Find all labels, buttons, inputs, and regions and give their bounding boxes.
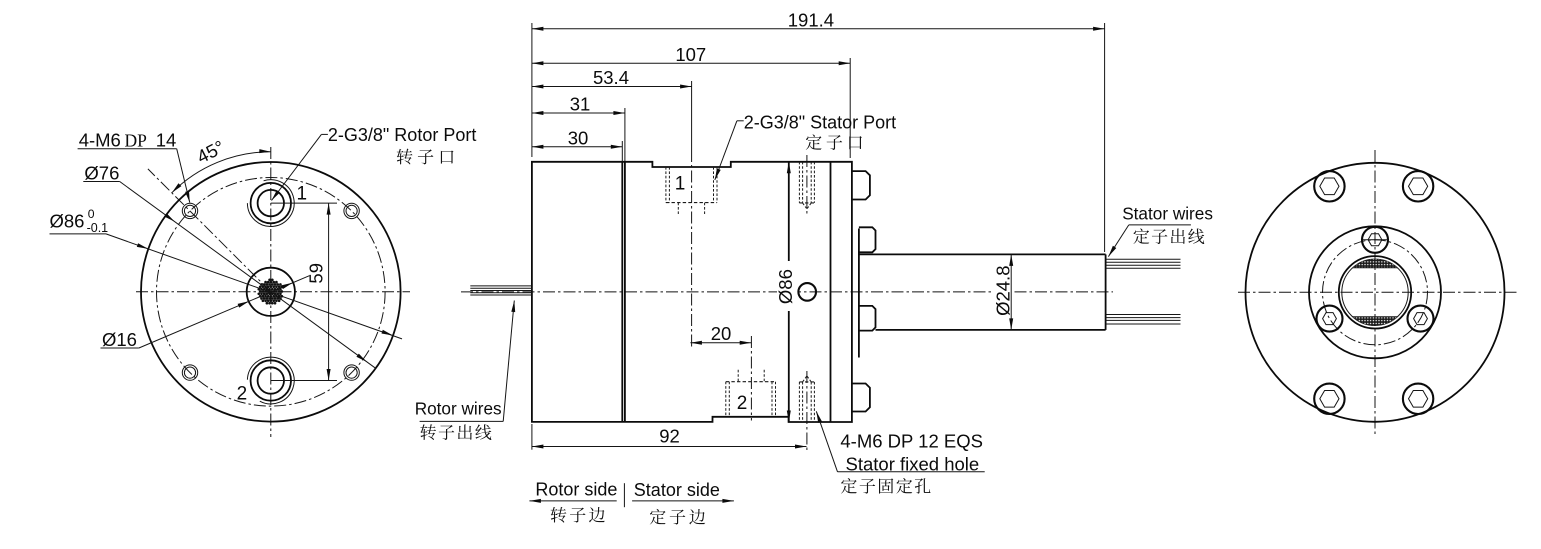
boss face line <box>858 229 860 358</box>
divider line <box>623 483 625 507</box>
svg-text:Stator fixed hole: Stator fixed hole <box>846 453 980 474</box>
dim 45deg arc <box>172 152 271 193</box>
middle centerline <box>461 291 1113 293</box>
hex bolt lower-left <box>1317 306 1343 332</box>
port 1 centerline <box>691 150 693 347</box>
label CJK dingzigudingkong <box>841 478 857 494</box>
stator flange left edge + O86 dim line <box>788 162 790 422</box>
socket head screw top-right <box>1403 171 1433 201</box>
dim 20 <box>690 342 751 344</box>
port 2 centerline <box>750 336 752 421</box>
svg-text:4-M6 DP 12 EQS: 4-M6 DP 12 EQS <box>840 431 983 452</box>
svg-text:2: 2 <box>737 393 748 414</box>
stator wires top <box>1106 258 1181 260</box>
socket head screw bottom-right <box>1403 384 1433 414</box>
svg-text:2-G3/8" Rotor Port: 2-G3/8" Rotor Port <box>328 125 476 145</box>
leader O86 through circle <box>106 234 402 339</box>
hex bolt lower-right <box>1408 306 1434 332</box>
svg-text:Ø86: Ø86 <box>775 269 796 304</box>
leader O76 through center <box>120 182 375 368</box>
leader O16 through center hole <box>139 276 310 348</box>
label CJK zhuanzibian <box>551 507 567 523</box>
stator port 2 hidden thread <box>725 382 727 417</box>
right outer circle <box>1246 163 1505 422</box>
svg-text:Ø86: Ø86 <box>50 210 85 231</box>
dim 31 <box>532 112 625 114</box>
dim 53.4 <box>691 81 693 150</box>
label CJK dingzikou <box>806 134 822 150</box>
body outline <box>532 162 852 422</box>
bore wire caps dotted <box>1353 259 1398 268</box>
dim 107 <box>849 58 851 158</box>
svg-text:45°: 45° <box>193 136 227 167</box>
centerline vertical <box>270 147 272 437</box>
svg-text:107: 107 <box>675 44 706 65</box>
svg-text:2: 2 <box>237 383 248 404</box>
svg-text:191.4: 191.4 <box>788 9 834 30</box>
dim 59 stubs from port centers <box>271 202 337 204</box>
stator tube O24.8 <box>859 253 1106 255</box>
svg-text:-0.1: -0.1 <box>87 221 109 235</box>
socket head screw bottom-left <box>1314 384 1344 414</box>
outer screw head bottom <box>852 384 870 412</box>
label CJK zhuanzikou <box>397 149 413 165</box>
stator port 1 hidden thread <box>665 167 667 203</box>
inner bolt circle dash-dot <box>1323 240 1428 345</box>
svg-text:53.4: 53.4 <box>593 67 629 88</box>
svg-text:59: 59 <box>306 263 327 284</box>
right centerline vertical <box>1374 150 1376 437</box>
svg-text:30: 30 <box>568 127 589 148</box>
inner hex head top <box>859 227 876 252</box>
outer screw head top <box>852 171 870 199</box>
svg-text:92: 92 <box>659 426 680 447</box>
hex bolt top <box>1362 227 1388 253</box>
leader to M6 hole <box>177 149 190 203</box>
rotor/stator joint lines <box>621 141 623 162</box>
dim O24.8 tube <box>993 264 1012 317</box>
svg-text:Rotor side: Rotor side <box>535 480 617 500</box>
svg-text:Stator side: Stator side <box>634 480 720 500</box>
svg-text:20: 20 <box>711 323 732 344</box>
svg-text:Ø24.8: Ø24.8 <box>993 265 1014 315</box>
svg-text:0: 0 <box>88 207 95 221</box>
svg-text:1: 1 <box>297 184 308 205</box>
rotor wires <box>470 285 532 287</box>
svg-text:4-M6 DP 14: 4-M6 DP 14 <box>79 130 177 151</box>
svg-text:2-G3/8" Stator Port: 2-G3/8" Stator Port <box>744 113 896 133</box>
bolt circle O76 dash-dot <box>156 177 385 406</box>
O86 text rotated <box>777 261 798 311</box>
dim 191.4 <box>531 23 533 157</box>
plate line <box>830 162 832 422</box>
bore chords <box>1353 267 1398 269</box>
M6 hole lower-right <box>344 365 359 380</box>
socket head screw top-left <box>1314 171 1344 201</box>
dim 59 line <box>328 203 330 380</box>
svg-text:1: 1 <box>675 173 686 194</box>
M6 fixed hole bottom <box>798 382 800 422</box>
centerline 45 deg diagonal <box>148 169 271 292</box>
label CJK dingzibian <box>650 509 666 525</box>
M6 hole upper-left <box>182 203 197 218</box>
bore outer circle <box>1339 256 1411 328</box>
bore inner circle <box>1342 259 1408 325</box>
label CJK dingzichuxian <box>1133 228 1149 244</box>
svg-text:Rotor wires: Rotor wires <box>415 398 502 418</box>
dim 92 <box>531 424 533 450</box>
centerline horizontal <box>136 291 410 293</box>
rotor port 2 bottom circles <box>258 367 284 393</box>
svg-text:Ø76: Ø76 <box>84 163 119 184</box>
stator wires bottom <box>1106 314 1181 316</box>
dim 30 <box>532 146 622 148</box>
svg-text:Ø16: Ø16 <box>102 329 137 350</box>
svg-text:Stator wires: Stator wires <box>1122 204 1213 224</box>
inner hex head bottom <box>859 306 876 331</box>
rotor port 1 top circles <box>258 190 284 216</box>
svg-text:31: 31 <box>570 94 591 115</box>
M6 fixed hole top <box>798 162 800 203</box>
M6 hole upper-right <box>344 203 359 218</box>
M6 hole lower-left <box>182 365 197 380</box>
side hole circle on flange <box>798 283 816 301</box>
label CJK zhuanzichuxian <box>420 424 436 440</box>
stator inner flange circle <box>1309 226 1441 358</box>
center hole O16 <box>247 268 295 316</box>
right centerline horizontal <box>1238 291 1517 293</box>
body outer circle O86 <box>141 162 401 422</box>
